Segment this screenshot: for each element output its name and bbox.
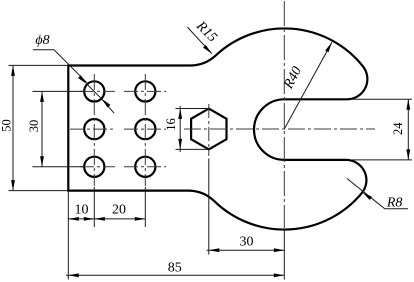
vertical extension line below head center <box>283 229 285 280</box>
column 1 vertical centerline <box>93 74 95 186</box>
svg-text:R8: R8 <box>386 196 403 211</box>
svg-text:16: 16 <box>164 118 178 131</box>
dimension 50 left <box>0 65 68 190</box>
main horizontal centerline <box>184 128 375 130</box>
hole centerline row2 col2 horizontal <box>124 128 166 130</box>
svg-text:20: 20 <box>112 203 126 218</box>
hole centerline row3 col2 horizontal <box>124 166 166 168</box>
leader and label R15 <box>187 18 219 54</box>
part outline (wrench body) <box>68 28 367 229</box>
hole centerline row3 col1 horizontal <box>80 166 115 168</box>
hole row3 col2 <box>135 157 155 177</box>
hole row2 col1 <box>84 119 104 139</box>
hex extension line below <box>208 159 210 255</box>
leader and label φ8 <box>33 33 114 113</box>
hole row1 col1 <box>84 81 104 101</box>
dimension 85 bottom <box>66 260 284 277</box>
svg-text:10: 10 <box>75 203 89 218</box>
hole row1 col2 <box>135 81 155 101</box>
dimension 10 bottom <box>68 203 94 221</box>
svg-text:30: 30 <box>240 235 254 250</box>
main vertical centerline of head <box>283 1 285 228</box>
dimension 16 (hex) <box>164 106 209 152</box>
leader and label R8 <box>347 179 408 211</box>
svg-text:24: 24 <box>391 122 405 135</box>
hexagonal hole <box>191 109 226 150</box>
dimension 20 bottom <box>94 203 145 221</box>
dimension 30 left (hole rows) <box>27 91 84 166</box>
svg-text:50: 50 <box>0 119 14 132</box>
column 2 vertical centerline <box>144 74 146 186</box>
left edge extension line down <box>67 191 69 280</box>
hole centerline row1 col2 horizontal <box>124 90 166 92</box>
dimension 30 bottom (hex to head center) <box>207 235 285 253</box>
dimension 24 right (slot) <box>352 99 412 160</box>
svg-text:30: 30 <box>27 120 41 133</box>
hex vertical centerline <box>208 104 210 156</box>
svg-text:ϕ8: ϕ8 <box>35 33 49 48</box>
column 2 extension line below <box>144 187 146 227</box>
column 1 extension line below <box>93 187 95 227</box>
hole row2 col2 <box>135 119 155 139</box>
hole centerline row1 col1 horizontal <box>80 90 115 92</box>
leader and label R40 <box>281 42 332 129</box>
hole centerline row2 col1 horizontal <box>70 128 115 130</box>
svg-text:85: 85 <box>168 260 182 275</box>
hole row3 col1 <box>84 157 104 177</box>
